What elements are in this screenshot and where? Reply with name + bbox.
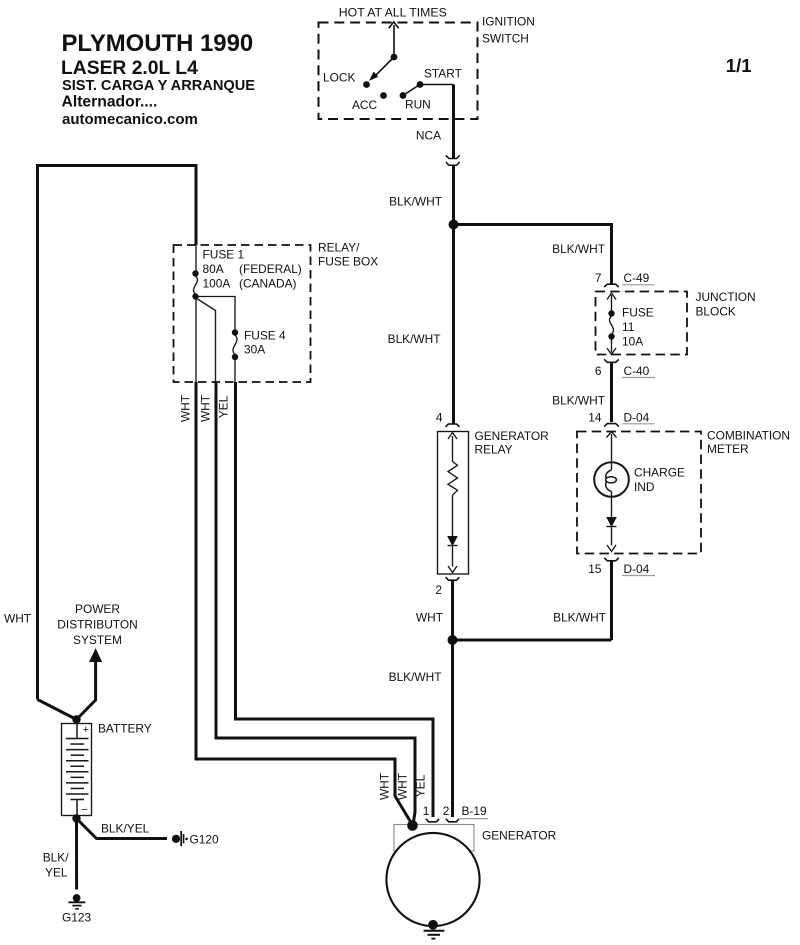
svg-text:4: 4 [436, 411, 443, 425]
svg-text:BLOCK: BLOCK [696, 305, 736, 319]
svg-text:G123: G123 [62, 911, 91, 925]
svg-text:WHT: WHT [4, 612, 31, 626]
svg-text:LASER 2.0L L4: LASER 2.0L L4 [61, 58, 198, 79]
svg-text:DISTRIBUTON: DISTRIBUTON [57, 618, 137, 632]
svg-text:BLK/WHT: BLK/WHT [552, 394, 605, 408]
svg-text:NCA: NCA [416, 129, 441, 143]
svg-text:2: 2 [443, 804, 450, 818]
svg-text:BLK/YEL: BLK/YEL [101, 822, 150, 836]
svg-text:WHT: WHT [396, 773, 410, 800]
svg-text:GENERATOR: GENERATOR [482, 829, 557, 843]
svg-text:IND: IND [634, 480, 655, 494]
svg-text:BLK/WHT: BLK/WHT [388, 332, 441, 346]
svg-text:1/1: 1/1 [726, 55, 752, 76]
svg-text:−: − [81, 804, 87, 816]
svg-text:B-19: B-19 [462, 804, 488, 818]
svg-text:80A: 80A [203, 262, 224, 276]
svg-text:WHT: WHT [199, 395, 213, 422]
svg-text:G120: G120 [190, 832, 219, 846]
svg-text:START: START [424, 67, 462, 81]
svg-text:15: 15 [588, 562, 602, 576]
svg-text:10A: 10A [622, 335, 643, 349]
svg-text:C-40: C-40 [624, 364, 650, 378]
svg-text:2: 2 [435, 583, 442, 597]
svg-text:BLK/WHT: BLK/WHT [389, 670, 442, 684]
svg-text:FUSE 1: FUSE 1 [203, 248, 245, 262]
svg-text:SWITCH: SWITCH [482, 32, 529, 46]
svg-text:100A: 100A [203, 277, 231, 291]
svg-text:(FEDERAL): (FEDERAL) [239, 262, 302, 276]
svg-text:D-04: D-04 [624, 411, 650, 425]
svg-text:6: 6 [595, 364, 602, 378]
svg-text:BLK/WHT: BLK/WHT [389, 195, 442, 209]
svg-text:RUN: RUN [405, 98, 431, 112]
svg-text:(CANADA): (CANADA) [239, 277, 297, 291]
svg-text:BLK/: BLK/ [43, 851, 69, 865]
svg-text:BATTERY: BATTERY [98, 722, 152, 736]
svg-text:C-49: C-49 [624, 271, 650, 285]
svg-text:11: 11 [622, 320, 635, 334]
svg-text:1: 1 [423, 804, 430, 818]
svg-text:GENERATOR: GENERATOR [475, 429, 550, 443]
svg-text:30A: 30A [244, 343, 265, 357]
svg-text:ACC: ACC [352, 98, 378, 112]
svg-text:YEL: YEL [217, 395, 231, 418]
svg-text:14: 14 [588, 411, 602, 425]
svg-text:FUSE BOX: FUSE BOX [318, 255, 378, 269]
svg-text:BLK/WHT: BLK/WHT [553, 611, 606, 625]
svg-text:METER: METER [707, 442, 749, 456]
svg-text:7: 7 [595, 271, 602, 285]
svg-text:JUNCTION: JUNCTION [696, 290, 756, 304]
svg-text:YEL: YEL [45, 866, 68, 880]
svg-text:Alternador....: Alternador.... [62, 94, 158, 111]
svg-text:FUSE: FUSE [622, 306, 654, 320]
svg-text:D-04: D-04 [624, 562, 650, 576]
svg-text:COMBINATION: COMBINATION [707, 429, 790, 443]
svg-text:PLYMOUTH 1990: PLYMOUTH 1990 [62, 30, 254, 57]
svg-text:YEL: YEL [414, 774, 428, 797]
svg-text:+: + [83, 724, 89, 736]
svg-text:SIST. CARGA Y ARRANQUE: SIST. CARGA Y ARRANQUE [62, 78, 255, 94]
svg-text:POWER: POWER [75, 602, 120, 616]
svg-text:WHT: WHT [378, 773, 392, 800]
svg-text:HOT AT ALL TIMES: HOT AT ALL TIMES [339, 6, 447, 20]
svg-text:WHT: WHT [416, 611, 443, 625]
svg-text:RELAY/: RELAY/ [318, 241, 360, 255]
svg-text:RELAY: RELAY [475, 443, 513, 457]
svg-text:IGNITION: IGNITION [482, 15, 535, 29]
svg-text:LOCK: LOCK [323, 71, 355, 85]
svg-text:WHT: WHT [179, 395, 193, 422]
svg-text:CHARGE: CHARGE [634, 466, 685, 480]
svg-text:automecanico.com: automecanico.com [62, 111, 198, 128]
svg-text:BLK/WHT: BLK/WHT [552, 242, 605, 256]
svg-text:SYSTEM: SYSTEM [73, 633, 122, 647]
svg-text:FUSE 4: FUSE 4 [244, 329, 286, 343]
